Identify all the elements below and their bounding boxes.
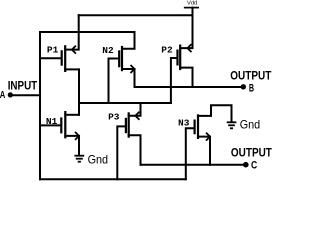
svg-text:N2: N2 (102, 45, 114, 56)
svg-text:A: A (0, 89, 6, 101)
wire internal node rail (79, 102, 171, 104)
wire P3 gate to bottom rail (117, 126, 125, 179)
wire P1 source to Vdd rail (65, 15, 79, 49)
svg-text:OUTPUT: OUTPUT (231, 147, 272, 159)
wire N3 gate to bottom rail (186, 128, 194, 179)
svg-text:N3: N3 (178, 118, 190, 129)
transistor N1 (61, 111, 79, 140)
svg-text:OUTPUT: OUTPUT (230, 71, 271, 83)
wire N1 gate lead (40, 124, 60, 126)
wire output B rail (135, 86, 244, 88)
wire P2 gate to node (171, 58, 177, 103)
svg-text:Gnd: Gnd (240, 117, 261, 131)
wire P2 source to Vdd (180, 15, 192, 48)
node C dot (243, 162, 249, 168)
wire P1 gate lead (40, 57, 61, 59)
wire N2 gate to node (109, 59, 119, 104)
wire P1 drain lead (65, 68, 79, 70)
svg-text:INPUT: INPUT (8, 81, 38, 93)
wire P2 drain to output B (180, 68, 192, 87)
node B dot (241, 84, 246, 89)
svg-text:Vdd: Vdd (187, 1, 197, 7)
svg-text:Gnd: Gnd (88, 152, 109, 166)
svg-text:B: B (249, 82, 254, 94)
transistor P2 (178, 44, 192, 70)
wire rail y32 input to N2 drain (40, 31, 135, 33)
wire P1 drain / N1 drain vertical (78, 69, 80, 114)
svg-text:P1: P1 (47, 45, 59, 56)
transistor N2 (119, 46, 134, 73)
wire INPUT A stub (10, 94, 40, 96)
wire P3 drain to output C (129, 135, 141, 165)
svg-text:N1: N1 (46, 116, 58, 127)
wire N1 drain lead (65, 114, 79, 116)
wire N2 source to output B (122, 69, 135, 87)
wire N3 drain to ground (198, 105, 232, 121)
ground Gnd near N3 (227, 122, 237, 128)
svg-text:P3: P3 (108, 111, 120, 122)
wire Vdd rail top (79, 14, 193, 16)
transistor N3 (195, 114, 210, 140)
transistor P1 (62, 45, 76, 72)
wire N2 drain up (122, 32, 135, 49)
power Vdd (185, 8, 199, 16)
wire bottom rail (40, 178, 186, 180)
svg-text:C: C (251, 160, 257, 172)
svg-text:P2: P2 (161, 45, 173, 56)
wire N3 source to output C (198, 137, 210, 165)
ground Gnd near N1 (74, 156, 84, 162)
wire N1 source down (65, 136, 79, 155)
node A dot (8, 92, 13, 97)
wire output C rail (141, 164, 247, 166)
wire input vertical (39, 32, 41, 179)
transistor P3 (126, 112, 139, 138)
wire P3 source to node (129, 103, 141, 116)
